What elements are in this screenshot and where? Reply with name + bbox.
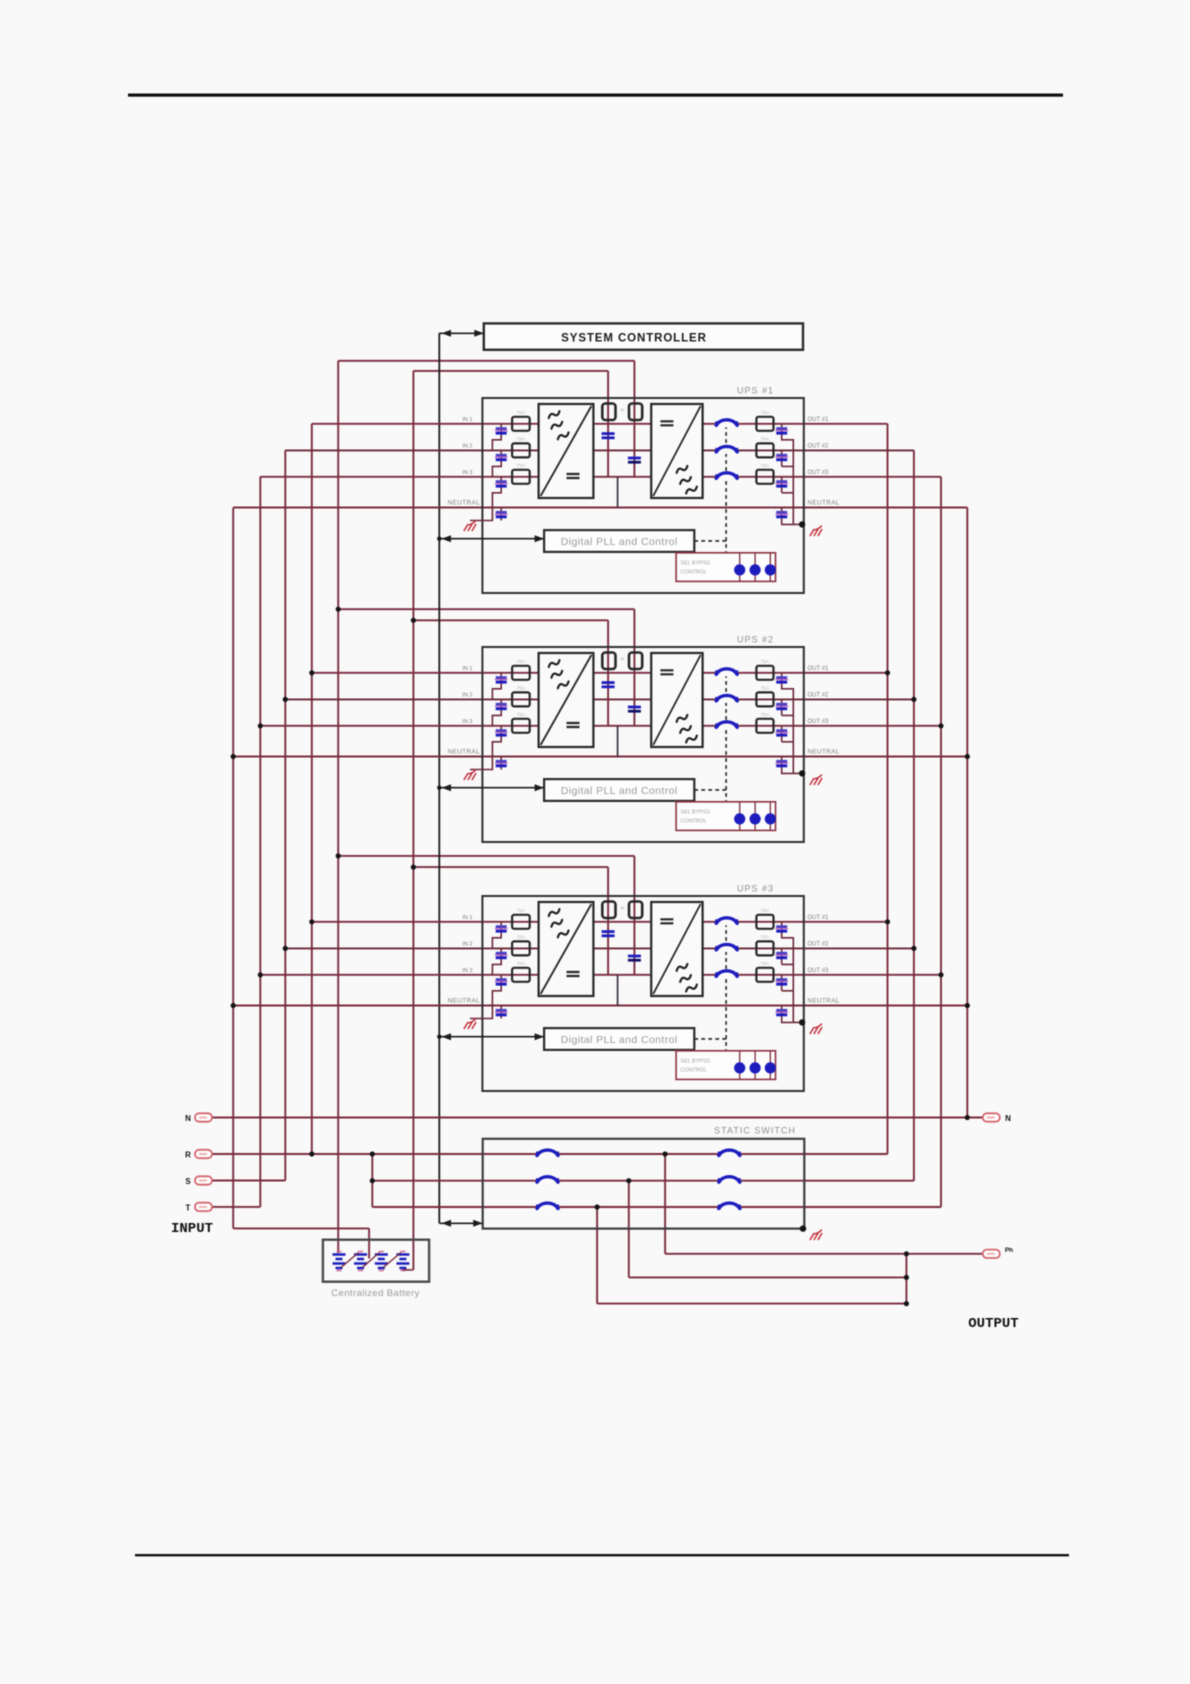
svg-text:75A: 75A [761,934,770,940]
static switch box [483,1139,805,1229]
UPS3 junction battery- bus [411,865,416,870]
wire static switch row2 load drop [628,1181,630,1278]
UPS2 input fuse F3 with rating label [512,719,530,733]
UPS2 DC bus vertical negative [607,651,609,726]
junction distribution vertical / row2 feed [370,1178,375,1183]
UPS3 neutral line [233,1005,967,1007]
UPS1 bypass indicator lamp 1 [734,564,745,575]
svg-text:Digital PLL and Control: Digital PLL and Control [561,785,678,797]
UPS3 output ground junction [799,1019,805,1025]
svg-text:INPUT: INPUT [171,1221,213,1237]
UPS2 DC midpoint to neutral link [617,726,619,757]
svg-text:NEUTRAL: NEUTRAL [808,998,840,1005]
UPS3 DC bus vertical positive [633,900,635,975]
UPS2 DC link capacitor C1 [602,681,615,684]
svg-text:NEUTRAL: NEUTRAL [808,500,840,507]
svg-text:75A: 75A [517,659,526,665]
UPS3 output contactor K3 [716,971,737,978]
wire static switch row3 feed from R distribution [372,1206,941,1208]
wire input T line to T bus [212,1206,260,1208]
svg-text:STATIC SWITCH: STATIC SWITCH [714,1126,796,1136]
static switch ground junction [800,1225,806,1231]
UPS1 output contactor K2 [716,447,737,454]
UPS1 SEL BYPASS CONTROL box [676,553,775,582]
UPS3 output fuse F4 with rating label [756,915,773,929]
svg-text:IN 2: IN 2 [462,692,472,698]
svg-text:NEUTRAL: NEUTRAL [448,998,480,1005]
node output neutral bus (vertical) [966,508,968,1118]
svg-text:IN 3: IN 3 [462,968,472,974]
UPS3 output ground [810,1024,822,1034]
output terminal N [983,1113,1000,1121]
svg-text:75A: 75A [517,436,526,442]
svg-text:OUT #1: OUT #1 [808,666,830,672]
wire input R line [212,1153,888,1155]
battery cell B1 [333,1255,346,1269]
node output phase 1 bus (vertical) [887,424,889,1154]
wire battery+ feed to UPS1 DC fuse [338,360,634,362]
UPS3 junction with out3 bus [938,972,943,977]
UPS3 IN3/OUT3 phase line [260,974,941,976]
wire battery midpoint drop [368,1228,370,1258]
svg-text:75A: 75A [761,712,770,718]
svg-text:IN 3: IN 3 [462,719,472,725]
wire output collector row3 [597,1303,906,1305]
UPS3 Digital PLL and Control box [544,1028,694,1050]
UPS2 Digital PLL and Control box [544,779,694,801]
wire battery+ feed to UPS2 DC fuse [338,608,634,610]
svg-text:75A: 75A [761,961,770,967]
UPS2 rectifier (AC/DC converter) [539,653,594,747]
junction output collector row1 [904,1251,909,1256]
UPS2 bypass indicator wiring [740,802,771,831]
UPS1 DC midpoint to neutral link [617,477,619,508]
UPS2 input arrester chain wiring [470,673,501,770]
UPS2 input arrester neutral [496,760,507,763]
UPS1 output ground junction [799,521,805,527]
wire UPS2 DC+ drop [633,609,635,653]
UPS1 DC fuse right [629,404,642,421]
svg-text:75A: 75A [517,961,526,967]
battery cell B3 [375,1255,388,1269]
UPS1 enclosure box [482,398,803,593]
UPS2 input arrester phase2 [496,703,507,706]
UPS3 inverter (DC/AC converter) [651,902,702,996]
UPS2 DC fuse left [602,653,615,670]
UPS1 output ground [810,526,822,536]
centralized battery box [323,1240,429,1282]
svg-text:T: T [186,1203,191,1212]
UPS2 output arrester neutral [776,760,787,763]
UPS3 input arrester chain wiring [470,922,501,1019]
svg-text:OUT #2: OUT #2 [808,941,830,947]
UPS3 DC midpoint to neutral link [617,975,619,1006]
UPS3 input arrester phase2 [496,952,507,955]
UPS3 output fuse F6 with rating label [756,968,773,982]
UPS2 enclosure box [482,647,803,842]
svg-text:SEL BYPSS: SEL BYPSS [681,1059,711,1065]
svg-text:Digital PLL and Control: Digital PLL and Control [561,1034,678,1046]
UPS1 input fuse F3 with rating label [512,470,530,484]
UPS3 output arrester phase3 [776,978,787,981]
UPS1 IN1/OUT1 phase line [312,423,888,425]
UPS #2 module [231,607,970,842]
UPS3 output contactor K1 [716,918,737,925]
svg-text:S: S [185,1177,191,1186]
junction N line / output neutral bus [965,1115,970,1120]
wire neutral bus to battery midpoint (horizontal) [233,1227,369,1229]
UPS2 output fuse F4 with rating label [756,666,773,680]
svg-text:OUT #2: OUT #2 [808,443,830,449]
UPS1 input fuse F2 with rating label [512,443,530,457]
UPS3 output contactor K2 [716,945,737,952]
UPS1 input arrester neutral [496,511,507,514]
UPS2 IN2/OUT2 phase line [285,698,914,700]
UPS2 input ground [464,770,476,780]
UPS1 IN2/OUT2 phase line [285,449,914,451]
UPS1 input ground [464,521,476,531]
svg-text:OUT #2: OUT #2 [808,692,830,698]
svg-text:Ph: Ph [1005,1247,1013,1254]
UPS3 input fuse F3 with rating label [512,968,530,982]
UPS2 output arrester phase3 [776,729,787,732]
junction R line / distribution vertical [370,1151,375,1156]
svg-text:IN 2: IN 2 [462,443,472,449]
UPS3 junction with output neutral bus [965,1003,970,1008]
UPS3 output arrester chain wiring [782,922,802,1023]
svg-text:SEL BYPSS: SEL BYPSS [681,561,711,567]
UPS2 junction with out3 bus [938,723,943,728]
UPS3 junction with out2 bus [911,946,916,951]
UPS3 contactor control dashed line [694,922,726,1051]
UPS2 contactor control dashed line [694,673,726,802]
UPS2 output fuse F5 with rating label [756,692,773,706]
UPS2 IN3/OUT3 phase line [260,725,941,727]
UPS #1 module [233,386,967,594]
node neutral input bus (vertical, feeds NEUTRAL of all UPS) [232,508,234,1229]
svg-text:NEUTRAL: NEUTRAL [448,749,480,756]
UPS3 IN1/OUT1 phase line [312,921,888,923]
wire static switch row3 load drop [596,1207,598,1304]
svg-text:SEL BYPSS: SEL BYPSS [681,810,711,816]
static switch inverter contactor row3 right [719,1204,740,1211]
svg-text:75A: 75A [761,463,770,469]
UPS3 DC fuse left [602,902,615,919]
UPS2 output ground junction [799,770,805,776]
battery cell B2 [354,1255,367,1269]
UPS1 output fuse F6 with rating label [756,470,773,484]
UPS2 controller bus arrow line [439,787,544,789]
UPS2 input fuse F2 with rating label [512,692,530,706]
svg-text:75A: 75A [761,908,770,914]
UPS1 DC bus vertical positive [633,402,635,477]
page bottom rule [135,1554,1069,1556]
svg-text:IN 2: IN 2 [462,941,472,947]
static switch ground [810,1230,822,1240]
UPS2 output arrester phase2 [776,703,787,706]
junction output collector row3 [904,1301,909,1306]
wire input N line to output N terminal [212,1117,983,1119]
UPS1 controller bus arrow line [439,538,544,540]
UPS2 junction with T bus [258,723,263,728]
UPS1 output contactor K1 [716,420,737,427]
UPS2 output contactor K3 [716,722,737,729]
wire UPS1 DC- drop [607,371,609,404]
UPS2 output contactor K2 [716,696,737,703]
UPS3 output fuse F5 with rating label [756,941,773,955]
UPS1 output arrester phase1 [776,427,787,430]
UPS3 bypass indicator lamp 2 [750,1062,761,1073]
UPS3 SEL BYPASS CONTROL box [676,1051,775,1080]
UPS2 SEL BYPASS CONTROL box [676,802,775,831]
svg-text:75A: 75A [517,410,526,416]
UPS1 bypass indicator lamp 3 [765,564,776,575]
UPS3 DC link capacitor C2 [628,955,641,958]
svg-text:75A: 75A [761,659,770,665]
svg-text:75A: 75A [517,685,526,691]
UPS2 bypass indicator lamp 2 [750,813,761,824]
UPS2 DC link capacitor C2 [628,706,641,709]
UPS3 input fuse F2 with rating label [512,941,530,955]
svg-text:CONTROL: CONTROL [681,570,707,576]
svg-text:IN 1: IN 1 [462,417,472,423]
UPS3 controller bus arrow line [439,1036,544,1038]
UPS1 DC link capacitor C2 [628,457,641,460]
UPS3 output arrester phase1 [776,925,787,928]
UPS1 output arrester chain wiring [782,424,802,525]
node battery negative bus (vertical) [412,371,414,1270]
UPS1 output fuse F4 with rating label [756,417,773,431]
UPS1 output fuse F5 with rating label [756,443,773,457]
UPS2 IN1/OUT1 phase line [312,672,888,674]
input terminal T [195,1203,212,1211]
UPS2 junction with S bus [283,697,288,702]
UPS2 bypass indicator lamp 1 [734,813,745,824]
UPS2 DC bus vertical positive [633,651,635,726]
UPS2 junction with R bus [309,670,314,675]
UPS2 output ground [810,775,822,785]
UPS3 junction battery+ bus [336,853,341,858]
UPS2 junction with output neutral bus [965,754,970,759]
UPS1 Digital PLL and Control box [544,530,694,552]
UPS3 input arrester phase3 [496,978,507,981]
svg-text:OUT #3: OUT #3 [808,719,830,725]
svg-text:IN 1: IN 1 [462,666,472,672]
wire UPS2 DC- drop [607,620,609,653]
UPS1 DC bus vertical negative [607,402,609,477]
svg-text:OUT #3: OUT #3 [808,470,830,476]
svg-text:75A: 75A [517,712,526,718]
UPS3 input ground [464,1019,476,1029]
UPS1 inverter (DC/AC converter) [651,404,702,498]
UPS3 DC fuse right [629,902,642,919]
svg-text:75A: 75A [761,410,770,416]
svg-text:Digital PLL and Control: Digital PLL and Control [561,536,678,548]
UPS2 input fuse F1 with rating label [512,666,530,680]
UPS2 junction battery- bus [411,618,416,623]
UPS3 junction with S bus [283,946,288,951]
UPS1 IN3/OUT3 phase line [260,476,941,478]
static switch inverter contactor row2 right [719,1177,740,1184]
svg-text:75A: 75A [517,908,526,914]
static switch bypass contactor row2 left [537,1177,558,1184]
battery series link 1 [341,1253,359,1268]
node output collector vertical [905,1254,907,1304]
svg-text:75A: 75A [517,934,526,940]
UPS1 bypass indicator wiring [740,553,771,582]
UPS1 input arrester phase2 [496,454,507,457]
junction output collector row2 [904,1275,909,1280]
svg-text:NEUTRAL: NEUTRAL [448,500,480,507]
UPS2 output arrester phase1 [776,676,787,679]
svg-text:CONTROL: CONTROL [681,819,707,825]
svg-text:75A: 75A [761,436,770,442]
svg-text:OUT #1: OUT #1 [808,915,830,921]
UPS2 output fuse F6 with rating label [756,719,773,733]
svg-text:UPS #1: UPS #1 [737,386,774,396]
svg-text:UPS #3: UPS #3 [737,884,774,894]
wire UPS3 DC- drop [607,867,609,902]
wire battery- feed to UPS1 DC fuse [413,370,608,372]
junction R line / R bus [309,1151,314,1156]
node S input bus (vertical, feeds IN2 of all UPS) [284,450,286,1180]
UPS2 bypass indicator lamp 3 [765,813,776,824]
UPS3 junction with T bus [258,972,263,977]
UPS3 bypass indicator wiring [740,1051,771,1080]
UPS3 enclosure box [482,896,803,1091]
page top rule [128,94,1063,97]
node R input bus (vertical, feeds IN1 of all UPS) [311,424,313,1154]
svg-text:75A: 75A [517,463,526,469]
svg-text:75A: 75A [761,685,770,691]
svg-text:IN 1: IN 1 [462,915,472,921]
node output phase 2 bus (vertical) [913,450,915,1180]
wire output Ph line [665,1253,983,1255]
UPS2 output arrester chain wiring [782,673,802,774]
wire battery negative elbow [403,1269,414,1271]
UPS2 junction battery+ bus [336,607,341,612]
UPS2 input arrester phase1 [496,676,507,679]
node T input bus (vertical, feeds IN3 of all UPS) [259,477,261,1207]
UPS1 input fuse F1 with rating label [512,417,530,431]
UPS #3 module [231,853,970,1091]
UPS2 neutral line [233,756,967,758]
wire battery+ feed to UPS3 DC fuse [338,855,634,857]
UPS2 output contactor K1 [716,669,737,676]
node battery positive bus (vertical) [337,361,339,1253]
wire battery- feed to UPS2 DC fuse [413,619,608,621]
UPS3 junction with out1 bus [885,919,890,924]
UPS3 output arrester phase2 [776,952,787,955]
battery series link 2 [363,1253,380,1268]
UPS1 input arrester phase3 [496,480,507,483]
svg-text:CONTROL: CONTROL [681,1068,707,1074]
UPS3 input fuse F1 with rating label [512,915,530,929]
svg-text:M: M [621,906,625,911]
UPS2 junction with out1 bus [885,670,890,675]
UPS1 output arrester phase2 [776,454,787,457]
static switch bypass contactor row3 left [537,1204,558,1211]
UPS1 output arrester neutral [776,511,787,514]
svg-text:OUT #1: OUT #1 [808,417,830,423]
UPS1 rectifier (AC/DC converter) [539,404,594,498]
svg-text:M: M [621,408,625,413]
static switch controller arrow [439,1222,482,1224]
UPS3 input arrester phase1 [496,925,507,928]
UPS2 DC fuse right [629,653,642,670]
UPS1 neutral line [233,507,967,509]
output terminal Ph [983,1250,1000,1258]
svg-text:N: N [185,1114,191,1123]
UPS2 junction with out2 bus [911,697,916,702]
UPS3 rectifier (AC/DC converter) [539,902,594,996]
wire static switch row2 feed from R distribution [372,1180,914,1182]
svg-text:NEUTRAL: NEUTRAL [808,749,840,756]
wire output collector row2 [629,1276,907,1278]
UPS1 input arrester chain wiring [470,424,501,521]
UPS1 output contactor K3 [716,473,737,480]
UPS1 DC fuse left [602,404,615,421]
svg-text:UPS #2: UPS #2 [737,635,774,645]
node output phase 3 bus (vertical) [940,477,942,1207]
UPS1 output arrester phase3 [776,480,787,483]
UPS3 junction with neutral bus [231,1003,236,1008]
static switch bypass contactor row1 left [537,1151,558,1158]
wire UPS3 DC+ drop [633,856,635,902]
UPS3 input arrester neutral [496,1009,507,1012]
wire system controller communication bus (vertical) [438,333,440,1223]
svg-text:N: N [1005,1114,1011,1123]
input terminal S [195,1176,212,1184]
wire static switch row1 load drop [664,1154,666,1254]
UPS1 DC link capacitor C1 [602,432,615,435]
input terminal N [195,1113,212,1121]
system controller bus arrow [439,332,484,334]
input terminal R [195,1150,212,1158]
svg-text:SYSTEM CONTROLLER: SYSTEM CONTROLLER [561,333,707,345]
UPS2 junction with neutral bus [231,754,236,759]
svg-text:M: M [621,657,625,662]
UPS3 output arrester neutral [776,1009,787,1012]
svg-text:OUT #3: OUT #3 [808,968,830,974]
UPS2 input arrester phase3 [496,729,507,732]
UPS3 junction with R bus [309,919,314,924]
UPS3 bypass indicator lamp 3 [765,1062,776,1073]
UPS1 input arrester phase1 [496,427,507,430]
battery cell B4 [396,1255,409,1269]
svg-text:R: R [185,1151,191,1160]
UPS3 DC link capacitor C1 [602,930,615,933]
UPS2 inverter (DC/AC converter) [651,653,702,747]
junction static switch row1 load tap [663,1151,668,1156]
junction static switch row3 load tap [595,1204,600,1209]
svg-text:Centralized Battery: Centralized Battery [331,1288,419,1299]
wire UPS1 DC+ drop [633,361,635,404]
svg-text:OUTPUT: OUTPUT [968,1316,1018,1332]
UPS3 bypass indicator lamp 1 [734,1062,745,1073]
junction static switch row2 load tap [626,1178,631,1183]
UPS3 IN2/OUT2 phase line [285,947,914,949]
UPS1 bypass indicator lamp 2 [750,564,761,575]
svg-text:IN 3: IN 3 [462,470,472,476]
UPS1 contactor control dashed line [694,424,726,553]
node R distribution vertical for static switch [371,1154,373,1207]
wire input S line to S bus [212,1180,285,1182]
system controller box U100 [484,323,803,349]
wire battery- feed to UPS3 DC fuse [413,866,608,868]
UPS3 DC bus vertical negative [607,900,609,975]
static switch inverter contactor row1 right [719,1151,740,1158]
